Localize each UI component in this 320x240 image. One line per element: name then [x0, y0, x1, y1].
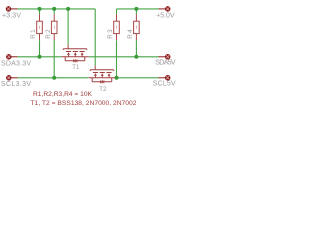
junction SDA R1	[38, 55, 42, 59]
transistor T2	[88, 66, 115, 84]
junction rail R2	[52, 7, 56, 11]
resistor R1	[37, 9, 43, 57]
junction rail R4	[134, 7, 138, 11]
svg-text:+5.0V: +5.0V	[156, 13, 175, 20]
svg-text:SCL5V: SCL5V	[153, 81, 176, 88]
svg-text:SDA5V: SDA5V	[155, 60, 176, 67]
svg-text:R1,R2,R3,R4 = 10K: R1,R2,R3,R4 = 10K	[33, 91, 92, 98]
svg-text:+3.3V: +3.3V	[2, 13, 21, 20]
power symbol SCL5V	[159, 76, 171, 81]
power symbol SDA5V	[159, 55, 171, 60]
junction SCL R3	[115, 76, 119, 80]
junction SCL R2	[52, 76, 56, 80]
wire SCL low side	[18, 77, 89, 79]
wire SCL high side	[116, 77, 159, 79]
svg-text:SCL3.3V: SCL3.3V	[1, 81, 31, 88]
wire right 5V rail	[117, 8, 159, 10]
power symbol SDA3.3V	[7, 55, 18, 60]
power symbol SCL3.3V	[7, 76, 18, 81]
wire left 3.3V rail	[18, 8, 96, 10]
svg-text:SDA3.3V: SDA3.3V	[1, 60, 31, 67]
wire SDA low side	[18, 56, 62, 58]
svg-text:T2: T2	[99, 86, 107, 93]
resistor R4	[134, 9, 140, 57]
power symbol +5.0V	[159, 7, 171, 12]
wire T1 gate drop	[67, 9, 69, 45]
junction SDA R4	[134, 55, 138, 59]
svg-text:T1, T2 = BSS138, 2N7000, 2N700: T1, T2 = BSS138, 2N7000, 2N7002	[31, 100, 137, 107]
junction rail T1 gate	[66, 7, 70, 11]
wire SDA high side	[89, 56, 159, 58]
junction rail R1	[38, 7, 42, 11]
transistor T1	[62, 45, 89, 63]
resistor R3	[114, 9, 120, 78]
power symbol +3.3V	[6, 7, 17, 12]
resistor R2	[51, 9, 57, 78]
wire T2 gate drop	[94, 9, 96, 66]
svg-text:T1: T1	[72, 64, 79, 71]
